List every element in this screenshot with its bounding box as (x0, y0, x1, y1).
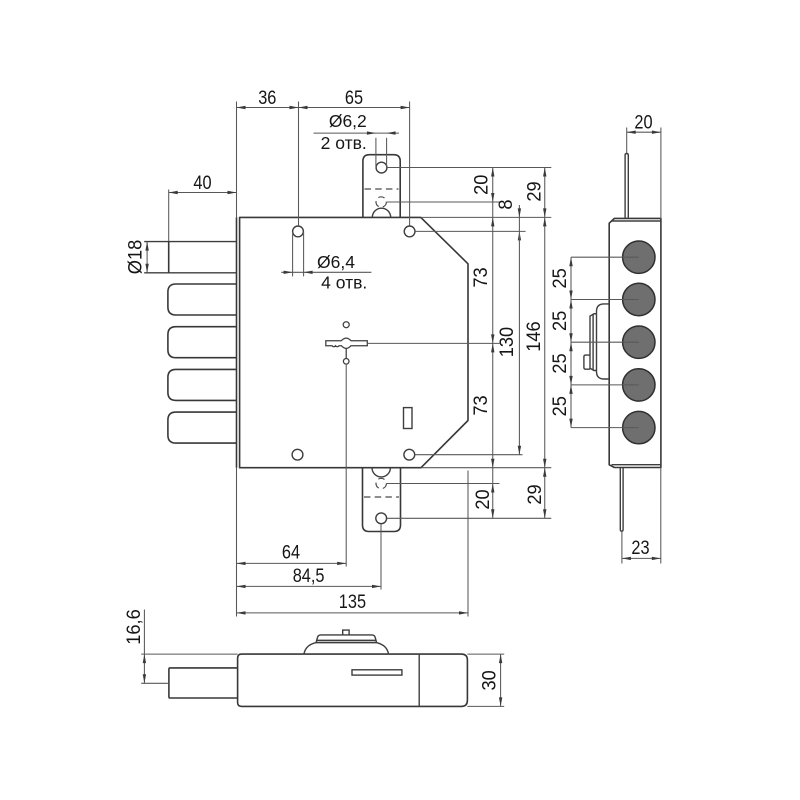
svg-text:84,5: 84,5 (293, 565, 325, 586)
bottom tab hole Ø6.2 (376, 513, 387, 524)
ext line body back down (467, 471, 469, 617)
ext line lever centre right (368, 342, 500, 344)
ext line hole 2 top (409, 102, 411, 226)
svg-text:130: 130 (496, 327, 517, 357)
handle slot (bottom view) (352, 670, 402, 675)
svg-text:25: 25 (549, 396, 570, 416)
bolt hole circle 2 (side view) (623, 283, 655, 315)
end cap divider (bottom view) (418, 654, 420, 706)
cam thumb tab (side) (584, 355, 590, 369)
deadbolt cylinder (bottom view) (169, 668, 238, 698)
deadbolt 3 (168, 327, 237, 358)
lever pin (small, below) (343, 359, 349, 365)
faceplate side view outline (609, 218, 661, 467)
svg-text:73: 73 (470, 395, 491, 415)
rectangular slot near back (404, 408, 413, 429)
bottom tab hidden bend line (dashed) (364, 496, 399, 498)
deadbolt 1 (extended, with Ø18/40 dims) (144, 242, 236, 273)
svg-text:8: 8 (495, 199, 516, 209)
cylinder knob base (bottom view) (304, 643, 389, 655)
lever pivot hole (small, above) (343, 322, 349, 328)
dim 29 bottom (body bottom to tab hole) (524, 468, 547, 519)
dim 73 upper (body top to lever) (470, 202, 495, 343)
ext line bottom tab hidden hole right (387, 483, 500, 485)
ext line lever centre down (345, 364, 347, 567)
mounting hole bottom-right Ø6.4 (404, 449, 415, 460)
bottom tab semicircular notch (372, 468, 390, 477)
ext line bottom holes right (415, 454, 523, 456)
dim 20 bottom (tab holes spacing) (472, 468, 495, 519)
dim 64 (front face to key centre) (237, 541, 347, 565)
dim 29 top (tab hole to body top) (523, 168, 546, 218)
top fixing tab (363, 155, 400, 218)
top connecting rod (625, 154, 628, 219)
dim 16,6 (side face to bolt axis) (123, 609, 238, 683)
dim Ø6.4 (body hole diameter) (281, 232, 371, 277)
svg-text:Ø6,4: Ø6,4 (317, 252, 355, 272)
dim 30 (lock thickness) (467, 654, 504, 706)
ext line tab holes down (380, 524, 382, 590)
cylinder knob disc (bottom view) (316, 635, 377, 643)
svg-text:20: 20 (472, 489, 493, 509)
mounting hole top-right Ø6.4 (404, 226, 415, 237)
label Ø6,2 2 holes (321, 111, 367, 153)
faceplate bottom lip line (612, 464, 661, 466)
svg-text:Ø18: Ø18 (124, 240, 145, 274)
mounting hole bottom-left Ø6.4 (292, 449, 303, 460)
deadbolt 5 (168, 412, 237, 443)
bolt hole circle 3 (side view) (623, 326, 655, 358)
cylinder cam housing (side) (597, 304, 610, 379)
svg-text:23: 23 (631, 537, 649, 558)
svg-text:135: 135 (339, 591, 366, 612)
cam middle plate (side) (590, 314, 597, 371)
dim 146 (body height) (523, 217, 547, 467)
svg-text:25: 25 (549, 311, 570, 331)
deadbolt 4 (168, 369, 237, 400)
ext line body bottom right (421, 467, 551, 469)
ext line tab hole right (387, 167, 551, 169)
ext line body top right (421, 216, 551, 218)
dim 23 (side plate bottom) (622, 468, 661, 564)
svg-text:64: 64 (282, 541, 300, 562)
svg-text:146: 146 (523, 321, 544, 351)
dim 130 (holes spacing vertical) (496, 231, 521, 454)
bottom tab hidden hole (dashed) (376, 478, 386, 488)
svg-text:73: 73 (470, 267, 491, 287)
top tab hidden bend line (dashed) (365, 188, 399, 190)
ext line top holes right (415, 230, 525, 232)
dim 135 (body depth) (237, 591, 469, 615)
ext line hole 1 top (298, 102, 300, 227)
dim 20 (side plate top width) (627, 111, 661, 218)
dim Ø6.2 (tab hole diameter) (314, 131, 400, 166)
bolt hole circle 1 (side view) (623, 241, 655, 273)
dims 25 group (549, 257, 639, 427)
svg-text:4 отв.: 4 отв. (321, 273, 367, 293)
ext line bottom tab hole right (387, 517, 552, 519)
faceplate top lip line (612, 220, 661, 222)
svg-text:40: 40 (193, 172, 211, 193)
svg-text:36: 36 (258, 87, 276, 108)
top tab hole Ø6.2 (376, 162, 387, 173)
ext line front face top (236, 102, 238, 218)
svg-text:25: 25 (549, 353, 570, 373)
svg-text:Ø6,2: Ø6,2 (329, 111, 367, 131)
svg-text:65: 65 (345, 87, 363, 108)
top tab semicircular notch (372, 208, 390, 217)
bottom fixing tab (363, 468, 401, 532)
dim 73 lower (lever to body bottom) (470, 343, 495, 467)
lock body (bottom view) (238, 654, 468, 706)
dim 84,5 (front face to tab holes) (237, 565, 382, 588)
svg-text:25: 25 (549, 268, 570, 288)
top tab hidden hole (dashed) (376, 197, 386, 207)
svg-text:2 отв.: 2 отв. (321, 133, 367, 153)
knob stem (bottom view) (343, 630, 349, 635)
dim 8 (body top to holes line) (495, 199, 521, 240)
key cam lever (326, 338, 368, 359)
dim 20 top (tab holes spacing) (470, 168, 494, 203)
bolt hole circle 5 (side view) (623, 411, 655, 443)
svg-text:29: 29 (524, 484, 545, 504)
bolt hole circle 4 (side view) (623, 369, 655, 401)
ext line tab hidden hole right (387, 201, 500, 203)
label Ø6,4 4 holes (317, 252, 367, 293)
ext line front face bottom (236, 468, 238, 617)
svg-text:30: 30 (478, 670, 499, 690)
dim 65 (hole to hole) (299, 87, 410, 110)
deadbolt 2 (168, 284, 237, 315)
dim 40 (bolt length) (169, 172, 237, 241)
svg-text:16,6: 16,6 (123, 609, 144, 644)
bottom connecting rod (620, 468, 623, 532)
dim 36 (front face to first hole) (237, 87, 299, 110)
svg-text:20: 20 (470, 175, 491, 195)
dim Ø18 (bolt diameter) (124, 240, 149, 274)
faceplate front edge (front view) (236, 217, 238, 467)
mounting hole top-left Ø6.4 (293, 226, 304, 237)
svg-text:20: 20 (634, 111, 652, 132)
svg-text:29: 29 (523, 181, 544, 201)
lock body outline (front view) (240, 217, 468, 467)
